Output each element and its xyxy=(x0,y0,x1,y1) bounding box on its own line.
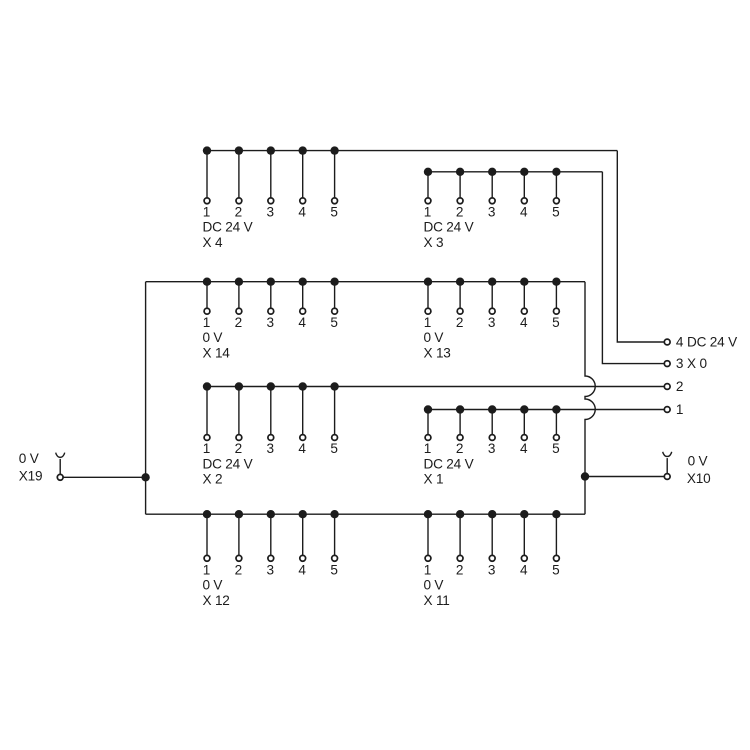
svg-text:2: 2 xyxy=(456,204,463,219)
svg-text:4: 4 xyxy=(676,334,684,349)
svg-text:2: 2 xyxy=(456,563,463,578)
svg-text:3: 3 xyxy=(676,356,683,371)
junction X11 pin 2 xyxy=(456,510,464,518)
svg-text:X 1: X 1 xyxy=(424,472,444,487)
junction X1 pin 3 xyxy=(488,405,496,413)
wire X19 stem xyxy=(59,459,61,474)
svg-text:1: 1 xyxy=(424,563,431,578)
junction X3 pin 3 xyxy=(488,168,496,176)
terminal node 3 (X 0) xyxy=(664,361,670,367)
terminal X12 pin 4 xyxy=(300,555,306,561)
terminal X14 pin 5 xyxy=(332,308,338,314)
wire X11 pin 2 stem xyxy=(459,514,461,558)
junction X14 pin 5 xyxy=(330,278,338,286)
wire X10 stem xyxy=(666,458,668,473)
terminal X2 pin 2 xyxy=(236,435,242,441)
terminal X11 pin 1 xyxy=(425,555,431,561)
socket symbol X19 xyxy=(56,453,65,458)
svg-text:5: 5 xyxy=(552,204,559,219)
svg-text:DC 24 V: DC 24 V xyxy=(424,220,474,235)
terminal X12 pin 2 xyxy=(236,555,242,561)
junction X2 pin 2 xyxy=(235,382,243,390)
terminal X1 pin 1 xyxy=(425,435,431,441)
svg-text:X 3: X 3 xyxy=(424,235,444,250)
terminal X1 pin 3 xyxy=(489,435,495,441)
svg-text:3: 3 xyxy=(488,204,495,219)
svg-text:5: 5 xyxy=(552,315,559,330)
terminal X3 pin 2 xyxy=(457,198,463,204)
wire X3 pin 5 stem xyxy=(555,172,557,201)
svg-text:X 12: X 12 xyxy=(203,593,230,608)
wire X3 pin 4 stem xyxy=(523,172,525,201)
wire X14 pin 5 stem xyxy=(334,282,336,312)
terminal X4 pin 2 xyxy=(236,198,242,204)
wire X2 pin 2 stem xyxy=(238,387,240,438)
junction X3 pin 5 xyxy=(552,168,560,176)
terminal X4 pin 5 xyxy=(332,198,338,204)
svg-text:4: 4 xyxy=(298,563,306,578)
wire X12 pin 2 stem xyxy=(238,514,240,558)
wire X14 pin 2 stem xyxy=(238,282,240,312)
terminal X12 pin 3 xyxy=(268,555,274,561)
svg-text:5: 5 xyxy=(330,563,337,578)
junction X4 pin 1 xyxy=(203,146,211,154)
terminal X11 pin 4 xyxy=(521,555,527,561)
wire X11 pin 5 stem xyxy=(555,514,557,558)
terminal X14 pin 3 xyxy=(268,308,274,314)
wire X1 pin 2 stem xyxy=(459,410,461,438)
svg-text:4: 4 xyxy=(520,315,528,330)
svg-text:X 2: X 2 xyxy=(203,472,223,487)
svg-text:0 V: 0 V xyxy=(203,330,223,345)
svg-text:1: 1 xyxy=(424,315,431,330)
wire 0V right vertical with hops xyxy=(585,282,595,515)
svg-text:1: 1 xyxy=(203,441,210,456)
wire X4 pin 3 stem xyxy=(270,151,272,201)
terminal X2 pin 3 xyxy=(268,435,274,441)
svg-text:DC 24 V: DC 24 V xyxy=(203,456,253,471)
wire 0V bottom bus xyxy=(146,513,585,515)
junction X2 pin 4 xyxy=(299,382,307,390)
wire X2 pin 3 stem xyxy=(270,387,272,438)
wire X10 to 0V right vertical xyxy=(585,476,664,478)
wire X3 pin 1 stem xyxy=(427,172,429,201)
svg-text:3: 3 xyxy=(267,563,274,578)
svg-text:1: 1 xyxy=(676,402,683,417)
wire X13 pin 4 stem xyxy=(523,282,525,312)
svg-text:4: 4 xyxy=(298,441,306,456)
svg-text:1: 1 xyxy=(203,204,210,219)
junction X2 pin 3 xyxy=(267,382,275,390)
svg-text:X19: X19 xyxy=(19,468,43,483)
terminal X2 pin 4 xyxy=(300,435,306,441)
wire X2 pin 5 stem xyxy=(334,387,336,438)
junction X14 pin 2 xyxy=(235,278,243,286)
svg-text:0 V: 0 V xyxy=(688,454,708,469)
svg-text:X 4: X 4 xyxy=(203,235,223,250)
wire X11 pin 3 stem xyxy=(491,514,493,558)
junction X13 pin 2 xyxy=(456,278,464,286)
wire X11 pin 4 stem xyxy=(523,514,525,558)
wire X13 pin 5 stem xyxy=(555,282,557,312)
svg-text:0 V: 0 V xyxy=(203,578,223,593)
junction X13 pin 5 xyxy=(552,278,560,286)
svg-text:2: 2 xyxy=(456,441,463,456)
terminal X12 pin 5 xyxy=(332,555,338,561)
wire X3 pin 3 stem xyxy=(491,172,493,201)
terminal X11 pin 2 xyxy=(457,555,463,561)
wire X2 pin 1 stem xyxy=(206,387,208,438)
junction X1 pin 5 xyxy=(552,405,560,413)
junction X14 pin 3 xyxy=(267,278,275,286)
terminal X13 pin 2 xyxy=(457,308,463,314)
svg-text:1: 1 xyxy=(424,441,431,456)
wire X14 pin 4 stem xyxy=(302,282,304,312)
junction X11 pin 3 xyxy=(488,510,496,518)
terminal X1 pin 2 xyxy=(457,435,463,441)
junction X3 pin 1 xyxy=(424,168,432,176)
svg-text:3: 3 xyxy=(267,441,274,456)
junction X2 pin 5 xyxy=(330,382,338,390)
svg-text:DC 24 V: DC 24 V xyxy=(203,220,253,235)
junction X1 pin 1 xyxy=(424,405,432,413)
svg-text:1: 1 xyxy=(424,204,431,219)
junction X13 pin 3 xyxy=(488,278,496,286)
svg-text:5: 5 xyxy=(552,441,559,456)
terminal X13 pin 1 xyxy=(425,308,431,314)
svg-text:4: 4 xyxy=(298,315,306,330)
terminal X10 xyxy=(664,474,670,480)
wire X19 to 0V left vertical xyxy=(63,476,145,478)
terminal node 4 (DC 24 V) xyxy=(664,339,670,345)
wire X3 bus to terminal 3 xyxy=(602,172,663,364)
terminal X14 pin 4 xyxy=(300,308,306,314)
junction X11 pin 4 xyxy=(520,510,528,518)
wire X1 pin 1 stem xyxy=(427,410,429,438)
svg-text:3: 3 xyxy=(267,204,274,219)
terminal X11 pin 3 xyxy=(489,555,495,561)
junction X12 pin 4 xyxy=(299,510,307,518)
wire X11 pin 1 stem xyxy=(427,514,429,558)
wire bus X1 xyxy=(428,409,664,411)
terminal X3 pin 5 xyxy=(554,198,560,204)
junction X12 pin 3 xyxy=(267,510,275,518)
terminal X12 pin 1 xyxy=(204,555,210,561)
svg-text:X 0: X 0 xyxy=(687,356,707,371)
terminal X2 pin 1 xyxy=(204,435,210,441)
wire 0V top bus xyxy=(146,281,585,283)
junction X4 pin 5 xyxy=(330,146,338,154)
junction X2 pin 1 xyxy=(203,382,211,390)
svg-text:1: 1 xyxy=(203,315,210,330)
wire bus X3 xyxy=(428,171,602,173)
wire X3 pin 2 stem xyxy=(459,172,461,201)
terminal X1 pin 5 xyxy=(554,435,560,441)
svg-text:X10: X10 xyxy=(687,471,711,486)
terminal X11 pin 5 xyxy=(554,555,560,561)
svg-text:X 11: X 11 xyxy=(424,593,450,608)
svg-text:2: 2 xyxy=(456,315,463,330)
wire X12 pin 5 stem xyxy=(334,514,336,558)
svg-text:4: 4 xyxy=(298,204,306,219)
junction 0V left / X19 xyxy=(141,473,149,481)
junction X12 pin 2 xyxy=(235,510,243,518)
terminal X13 pin 4 xyxy=(521,308,527,314)
svg-text:2: 2 xyxy=(235,204,242,219)
junction X11 pin 1 xyxy=(424,510,432,518)
junction X1 pin 2 xyxy=(456,405,464,413)
wire X4 pin 5 stem xyxy=(334,151,336,201)
svg-text:5: 5 xyxy=(552,563,559,578)
terminal X19 xyxy=(57,474,63,480)
svg-text:4: 4 xyxy=(520,204,528,219)
junction X12 pin 1 xyxy=(203,510,211,518)
terminal X2 pin 5 xyxy=(332,435,338,441)
wire X1 pin 4 stem xyxy=(523,410,525,438)
terminal X1 pin 4 xyxy=(521,435,527,441)
junction X1 pin 4 xyxy=(520,405,528,413)
svg-text:4: 4 xyxy=(520,563,528,578)
terminal X3 pin 1 xyxy=(425,198,431,204)
junction X4 pin 3 xyxy=(267,146,275,154)
terminal X14 pin 2 xyxy=(236,308,242,314)
wire X2 pin 4 stem xyxy=(302,387,304,438)
wire 0V left vertical xyxy=(145,282,147,515)
junction X14 pin 4 xyxy=(299,278,307,286)
wire X12 pin 4 stem xyxy=(302,514,304,558)
svg-text:1: 1 xyxy=(203,563,210,578)
terminal node 2 xyxy=(664,384,670,390)
wire X1 pin 5 stem xyxy=(555,410,557,438)
svg-text:X 14: X 14 xyxy=(203,345,231,360)
svg-text:2: 2 xyxy=(235,315,242,330)
terminal X13 pin 3 xyxy=(489,308,495,314)
junction 0V right / X10 xyxy=(581,472,589,480)
svg-text:5: 5 xyxy=(330,204,337,219)
wire X4 pin 1 stem xyxy=(206,151,208,201)
wire X13 pin 2 stem xyxy=(459,282,461,312)
svg-text:4: 4 xyxy=(520,441,528,456)
socket symbol X10 xyxy=(663,452,672,457)
terminal X13 pin 5 xyxy=(554,308,560,314)
svg-text:2: 2 xyxy=(235,441,242,456)
junction X11 pin 5 xyxy=(552,510,560,518)
junction X4 pin 4 xyxy=(299,146,307,154)
svg-text:DC 24 V: DC 24 V xyxy=(424,456,474,471)
wire X13 pin 3 stem xyxy=(491,282,493,312)
terminal X4 pin 3 xyxy=(268,198,274,204)
junction X3 pin 4 xyxy=(520,168,528,176)
terminal X3 pin 4 xyxy=(521,198,527,204)
wire X4 pin 2 stem xyxy=(238,151,240,201)
wire X13 pin 1 stem xyxy=(427,282,429,312)
wire X14 pin 3 stem xyxy=(270,282,272,312)
svg-text:3: 3 xyxy=(267,315,274,330)
svg-text:3: 3 xyxy=(488,441,495,456)
svg-text:X 13: X 13 xyxy=(424,345,451,360)
junction X3 pin 2 xyxy=(456,168,464,176)
terminal node 1 xyxy=(664,407,670,413)
wire X12 pin 3 stem xyxy=(270,514,272,558)
wire X1 pin 3 stem xyxy=(491,410,493,438)
terminal X4 pin 4 xyxy=(300,198,306,204)
svg-text:3: 3 xyxy=(488,315,495,330)
svg-text:0 V: 0 V xyxy=(19,451,39,466)
terminal X4 pin 1 xyxy=(204,198,210,204)
wire X4 pin 4 stem xyxy=(302,151,304,201)
terminal X14 pin 1 xyxy=(204,308,210,314)
svg-text:2: 2 xyxy=(676,379,683,394)
wire bus X2 xyxy=(207,386,664,388)
wire bus X4 xyxy=(207,150,617,152)
svg-text:DC 24 V: DC 24 V xyxy=(687,334,737,349)
junction X14 pin 1 xyxy=(203,278,211,286)
svg-text:3: 3 xyxy=(488,563,495,578)
junction X13 pin 4 xyxy=(520,278,528,286)
svg-text:5: 5 xyxy=(330,441,337,456)
svg-text:5: 5 xyxy=(330,315,337,330)
wire X14 pin 1 stem xyxy=(206,282,208,312)
wire X12 pin 1 stem xyxy=(206,514,208,558)
svg-text:2: 2 xyxy=(235,563,242,578)
junction X12 pin 5 xyxy=(330,510,338,518)
svg-text:0 V: 0 V xyxy=(424,578,444,593)
svg-text:0 V: 0 V xyxy=(424,330,444,345)
junction X13 pin 1 xyxy=(424,278,432,286)
wire X4 bus to terminal 4 xyxy=(617,151,663,342)
terminal X3 pin 3 xyxy=(489,198,495,204)
junction X4 pin 2 xyxy=(235,146,243,154)
